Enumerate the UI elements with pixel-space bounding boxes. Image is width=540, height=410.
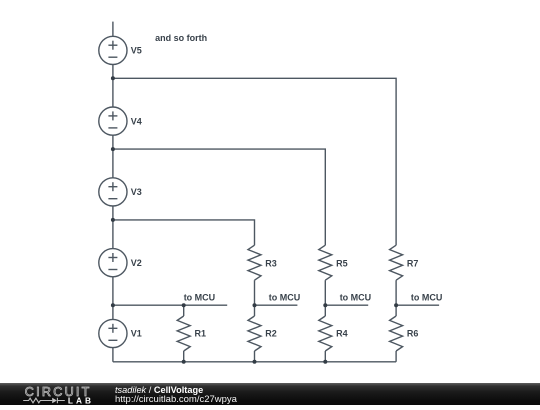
node V3-V2 junction	[111, 218, 115, 222]
wire V2 to V1	[112, 277, 114, 320]
node R1 top junction	[182, 303, 186, 307]
resistor R6	[390, 316, 403, 351]
wire R4 bottom lead	[324, 351, 326, 362]
voltage source V2	[99, 249, 127, 277]
node R2 top junction	[253, 303, 257, 307]
CircuitLab logo	[0, 382, 110, 405]
node R1 bottom junction	[182, 360, 186, 364]
wire top stub above V5	[112, 22, 114, 37]
resistor R5	[319, 245, 332, 280]
node V5-V4 junction	[111, 76, 115, 80]
wire V4 to V3	[112, 135, 114, 178]
svg-text:V5: V5	[131, 46, 142, 56]
wire to MCU stub at R2	[255, 304, 298, 306]
voltage source V1	[99, 319, 127, 347]
svg-text:V2: V2	[131, 258, 142, 268]
node R4 top junction	[323, 303, 327, 307]
credit line URL	[115, 394, 237, 405]
voltage source V5	[99, 36, 127, 64]
svg-text:V4: V4	[131, 116, 142, 126]
wire row D to-MCU rail from main line past R1	[113, 304, 227, 306]
node R2 bottom junction	[253, 360, 257, 364]
svg-text:V3: V3	[131, 187, 142, 197]
svg-text:V1: V1	[131, 329, 142, 339]
node V2-V1 junction	[111, 303, 115, 307]
resistor R3	[248, 245, 261, 280]
resistor R1	[177, 316, 190, 351]
svg-text:to MCU: to MCU	[340, 293, 372, 303]
wire bottom rail	[113, 361, 396, 363]
wire R1 bottom lead	[183, 351, 185, 362]
node V4-V3 junction	[111, 147, 115, 151]
node R6 top junction	[394, 303, 398, 307]
footer bar	[0, 383, 540, 405]
svg-text:R2: R2	[265, 329, 277, 339]
wire R3 to R2 link	[254, 280, 256, 316]
resistor R2	[248, 316, 261, 351]
svg-text:LAB: LAB	[68, 395, 94, 405]
svg-text:R3: R3	[265, 259, 277, 269]
svg-text:R6: R6	[407, 329, 419, 339]
resistor R4	[319, 316, 332, 351]
wire to MCU stub at R4	[325, 304, 368, 306]
node R4 bottom junction	[323, 360, 327, 364]
wire V5 to V4	[112, 65, 114, 108]
credit line author/title	[115, 385, 203, 395]
wire V3 to V2	[112, 206, 114, 249]
wire R5 to R4 link	[324, 280, 326, 316]
voltage source V3	[99, 178, 127, 206]
wire row A from V5-V4 node to R7 column	[113, 78, 396, 245]
wire V1 to bottom rail	[112, 348, 114, 362]
wire R1 top lead	[183, 305, 185, 316]
wire R7 to R6 link	[395, 280, 397, 316]
voltage source V4	[99, 107, 127, 135]
wire row C from V3-V2 node to R3 column	[113, 220, 255, 245]
wire R2 bottom lead	[254, 351, 256, 362]
svg-text:and so forth: and so forth	[155, 33, 207, 43]
svg-text:R4: R4	[336, 329, 348, 339]
svg-text:to MCU: to MCU	[269, 293, 301, 303]
wire row B from V4-V3 node to R5 column	[113, 149, 325, 245]
svg-text:R1: R1	[195, 329, 207, 339]
svg-text:to MCU: to MCU	[184, 293, 216, 303]
resistor R7	[390, 245, 403, 280]
wire to MCU stub at R6	[396, 304, 439, 306]
wire R6 bottom lead	[395, 351, 397, 362]
svg-text:to MCU: to MCU	[411, 293, 443, 303]
svg-text:R7: R7	[407, 259, 419, 269]
svg-text:R5: R5	[336, 259, 348, 269]
